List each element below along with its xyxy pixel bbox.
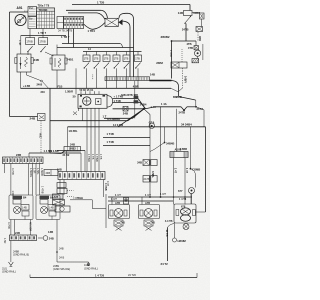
- svg-text:24B: 24B: [59, 247, 64, 251]
- svg-text:24B: 24B: [30, 117, 36, 121]
- svg-text:1 4 TB: 1 4 TB: [44, 149, 52, 153]
- svg-text:1 TB: 1 TB: [99, 154, 103, 160]
- svg-text:(GND RAIL B): (GND RAIL B): [13, 253, 29, 257]
- svg-text:24B: 24B: [151, 221, 156, 225]
- svg-text:1/0.5BL: 1/0.5BL: [69, 129, 79, 133]
- svg-text:4TB: 4TB: [188, 46, 193, 50]
- svg-text:24B2: 24B2: [156, 61, 163, 65]
- svg-text:14B: 14B: [178, 11, 183, 15]
- svg-text:2400: 2400: [37, 82, 43, 86]
- svg-text:24B: 24B: [34, 58, 40, 62]
- svg-text:1 4 T: 1 4 T: [111, 197, 117, 201]
- svg-text:1TB: 1TB: [135, 57, 140, 61]
- svg-text:4TB: 4TB: [187, 42, 192, 46]
- svg-text:1.5R: 1.5R: [11, 191, 15, 197]
- svg-text:4 BR: 4 BR: [133, 85, 139, 89]
- svg-text:1 4T: 1 4T: [185, 168, 189, 174]
- svg-text:TRUNK: TRUNK: [39, 8, 48, 12]
- svg-text:B4: B4: [23, 196, 27, 200]
- svg-text:24 B: 24 B: [59, 256, 65, 260]
- svg-text:Sw: Sw: [29, 16, 33, 20]
- svg-text:24TB: 24TB: [182, 27, 189, 31]
- svg-text:240: 240: [41, 90, 46, 94]
- svg-text:(GND SPLICE): (GND SPLICE): [53, 267, 70, 271]
- svg-text:1 4 T: 1 4 T: [160, 192, 166, 196]
- svg-text:2A7B: 2A7B: [144, 177, 151, 181]
- svg-text:1 TB/B: 1 TB/B: [95, 154, 99, 162]
- svg-text:1.4B: 1.4B: [49, 206, 55, 210]
- svg-text:+1.5B: +1.5B: [23, 84, 30, 88]
- svg-text:1 T4B: 1 T4B: [107, 132, 114, 136]
- svg-text:24B: 24B: [49, 236, 54, 240]
- svg-text:H2082: H2082: [178, 239, 187, 243]
- svg-text:1 4T: 1 4T: [174, 168, 178, 174]
- svg-text:1TKB: 1TKB: [26, 40, 33, 44]
- svg-text:1TB: 1TB: [94, 57, 99, 61]
- svg-text:1 TR 7: 1 TR 7: [38, 31, 47, 35]
- svg-text:24B: 24B: [137, 161, 142, 165]
- svg-text:1 4TB: 1 4TB: [169, 50, 173, 57]
- svg-text:24B: 24B: [57, 168, 62, 172]
- svg-text:24B: 24B: [70, 142, 75, 146]
- svg-text:1TB: 1TB: [114, 57, 119, 61]
- svg-text:1TB: 1TB: [104, 57, 109, 61]
- svg-text:24 B2: 24 B2: [63, 153, 70, 157]
- svg-text:3.4 2W/BK: 3.4 2W/BK: [107, 117, 120, 121]
- svg-text:COMB: COMB: [192, 167, 200, 171]
- svg-text:24TB: 24TB: [179, 110, 186, 114]
- svg-text:1 TB: 1 TB: [91, 154, 95, 160]
- svg-text:1TB: 1TB: [84, 57, 89, 61]
- svg-text:14B/Y: 14B/Y: [184, 76, 188, 83]
- svg-text:1TKB: 1TKB: [39, 40, 46, 44]
- svg-text:0.75B: 0.75B: [11, 168, 15, 175]
- svg-text:1 T4B: 1 T4B: [114, 99, 121, 103]
- svg-text:24B4: 24B4: [140, 103, 147, 107]
- svg-text:41B2: 41B2: [193, 11, 200, 15]
- svg-text:A/C: A/C: [39, 133, 43, 138]
- svg-text:(GND RAIL): (GND RAIL): [84, 266, 98, 270]
- svg-text:24B1: 24B1: [67, 58, 74, 62]
- svg-text:2TB4: 2TB4: [197, 107, 204, 111]
- svg-text:34B4B: 34B4B: [166, 142, 174, 146]
- svg-text:24B: 24B: [46, 171, 51, 175]
- svg-text:24B: 24B: [121, 221, 126, 225]
- svg-text:T20a 7 T8: T20a 7 T8: [38, 3, 50, 7]
- svg-text:1.5B/R: 1.5B/R: [65, 89, 73, 93]
- svg-text:1 TR4: 1 TR4: [88, 29, 96, 33]
- svg-text:14B: 14B: [48, 230, 53, 234]
- svg-text:A7B: A7B: [145, 201, 150, 205]
- svg-text:(GND RAIL): (GND RAIL): [2, 270, 16, 274]
- svg-text:A103: A103: [175, 148, 182, 152]
- svg-text:4/0.5BR: 4/0.5BR: [28, 222, 32, 231]
- svg-text:1 4 T20: 1 4 T20: [95, 274, 105, 278]
- svg-text:14 0.5W: 14 0.5W: [113, 123, 123, 127]
- svg-text:0.5BL: 0.5BL: [151, 171, 155, 178]
- svg-text:1 TB/R: 1 TB/R: [87, 154, 91, 162]
- svg-text:1 4 T: 1 4 T: [115, 193, 121, 197]
- svg-text:24B: 24B: [123, 111, 128, 115]
- svg-text:4.4 TB: 4.4 TB: [165, 219, 173, 223]
- svg-text:A91: A91: [17, 6, 23, 10]
- svg-text:0.75B: 0.75B: [7, 222, 11, 229]
- svg-text:24 T20: 24 T20: [128, 273, 136, 277]
- svg-text:B8B2B: B8B2B: [173, 95, 182, 99]
- svg-text:1.4B: 1.4B: [22, 206, 28, 210]
- svg-text:24 T2: 24 T2: [161, 262, 169, 266]
- svg-text:1 4T/B: 1 4T/B: [41, 186, 45, 194]
- svg-text:34 34B4: 34 34B4: [181, 123, 192, 127]
- svg-text:1 T20: 1 T20: [97, 0, 105, 4]
- svg-text:1.5R/B: 1.5R/B: [40, 168, 44, 176]
- svg-text:24 TB 24 TB: 24 TB 24 TB: [58, 29, 73, 33]
- svg-text:1.4B: 1.4B: [18, 40, 22, 46]
- svg-text:1 T4B: 1 T4B: [107, 140, 114, 144]
- svg-text:677: 677: [178, 189, 183, 193]
- svg-text:Pwr: Pwr: [29, 6, 34, 10]
- svg-text:1 4A: 1 4A: [161, 102, 167, 106]
- svg-text:14B: 14B: [150, 73, 155, 77]
- svg-text:14 TB: 14 TB: [165, 230, 169, 237]
- svg-text:1TB: 1TB: [124, 57, 129, 61]
- svg-text:24B: 24B: [16, 153, 21, 157]
- svg-text:3W/B2: 3W/B2: [161, 35, 170, 39]
- svg-text:1.5R: 1.5R: [3, 238, 7, 244]
- svg-text:24B 2: 24B 2: [69, 147, 76, 151]
- svg-text:24B: 24B: [15, 231, 20, 235]
- svg-text:50 30 15 X1: 50 30 15 X1: [80, 88, 94, 92]
- svg-text:+ 1 T4B: + 1 T4B: [114, 95, 124, 99]
- svg-text:= 17BLE: = 17BLE: [73, 196, 83, 200]
- svg-text:W/R: W/R: [198, 36, 202, 41]
- svg-text:30: 30: [73, 95, 76, 99]
- svg-text:F1B: F1B: [58, 84, 63, 88]
- svg-text:4 4T: 4 4T: [106, 181, 110, 187]
- svg-text:A7B: A7B: [115, 201, 120, 205]
- svg-text:A25: A25: [54, 195, 59, 199]
- svg-text:B4: B4: [50, 196, 54, 200]
